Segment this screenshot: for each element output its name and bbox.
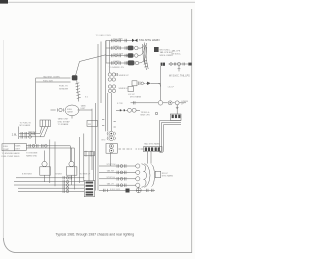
svg-text:TAIL LH: TAIL LH xyxy=(107,182,115,185)
svg-text:2.8L: 2.8L xyxy=(12,133,18,137)
svg-text:STOP LH: STOP LH xyxy=(107,177,116,179)
svg-text:TAIL MTG HARN: TAIL MTG HARN xyxy=(144,142,160,145)
svg-text:TO FRAME: TO FRAME xyxy=(58,123,69,126)
svg-text:GRD: GRD xyxy=(101,140,106,142)
svg-text:TAIL MTG HARN: TAIL MTG HARN xyxy=(139,38,160,42)
svg-text:W/ S.M.C.: W/ S.M.C. xyxy=(172,53,182,55)
svg-text:B TRK: B TRK xyxy=(117,103,124,105)
svg-text:TO S/MKR LPS: TO S/MKR LPS xyxy=(109,67,125,69)
svg-text:STOP RH: STOP RH xyxy=(107,164,116,166)
svg-text:B BRN: B BRN xyxy=(54,76,61,78)
svg-text:TO ENGINE: TO ENGINE xyxy=(26,153,38,155)
svg-text:TAIL MKR: TAIL MKR xyxy=(43,75,53,78)
svg-text:TAIL LPS: TAIL LPS xyxy=(172,50,181,53)
svg-text:UNIT: UNIT xyxy=(15,149,20,151)
svg-text:B BRN: B BRN xyxy=(114,61,121,63)
svg-text:GRD STRAP: GRD STRAP xyxy=(58,120,71,123)
svg-text:GAGE: GAGE xyxy=(67,111,73,114)
svg-text:TANK: TANK xyxy=(81,105,87,108)
svg-text:FUEL TK: FUEL TK xyxy=(59,86,68,88)
svg-text:FUEL SDR: FUEL SDR xyxy=(43,80,53,82)
svg-text:LIC LP: LIC LP xyxy=(128,94,135,96)
svg-text:MTG HARN: MTG HARN xyxy=(162,175,174,178)
svg-text:PUMP: PUMP xyxy=(3,149,9,151)
svg-text:S/MKR LP: S/MKR LP xyxy=(119,88,130,90)
svg-text:S/MKR LP: S/MKR LP xyxy=(119,75,130,77)
svg-text:TANK: TANK xyxy=(15,145,21,148)
svg-text:HARN GRD: HARN GRD xyxy=(26,154,38,157)
svg-text:W/ S.M.C. TAIL LPS: W/ S.M.C. TAIL LPS xyxy=(169,75,190,78)
svg-text:B RR MKR: B RR MKR xyxy=(22,173,32,175)
svg-text:LIC LP: LIC LP xyxy=(168,86,175,88)
svg-text:TR/SIG &: TR/SIG & xyxy=(141,112,151,114)
svg-text:SENDER: SENDER xyxy=(59,88,69,90)
svg-text:MTG HARN: MTG HARN xyxy=(130,96,142,99)
svg-text:FUEL: FUEL xyxy=(67,109,73,111)
svg-text:B LT GRN: B LT GRN xyxy=(114,38,124,40)
svg-text:TO MKR LP: TO MKR LP xyxy=(80,173,91,175)
svg-text:MTG HARN: MTG HARN xyxy=(20,124,31,127)
svg-text:TANK UNIT: TANK UNIT xyxy=(58,118,70,121)
svg-text:B MKR: B MKR xyxy=(56,173,63,175)
svg-text:FUEL: FUEL xyxy=(3,146,9,148)
svg-text:TO CAB CONN: TO CAB CONN xyxy=(96,34,112,37)
svg-text:TO ENGINE HARN: TO ENGINE HARN xyxy=(2,152,20,155)
svg-text:B BLK GRD: B BLK GRD xyxy=(110,189,121,191)
svg-text:W/O S.M.C.: W/O S.M.C. xyxy=(160,49,172,51)
svg-text:MKR LPS: MKR LPS xyxy=(141,115,151,117)
svg-text:B YEL: B YEL xyxy=(114,46,121,48)
svg-text:FUEL PUMP FEED: FUEL PUMP FEED xyxy=(2,156,20,158)
svg-text:B DK GRN: B DK GRN xyxy=(114,53,124,55)
svg-text:TAIL RH: TAIL RH xyxy=(107,170,115,173)
svg-text:Typical 1981 through 1987 chas: Typical 1981 through 1987 chassis and re… xyxy=(56,233,135,237)
svg-text:RR LP: RR LP xyxy=(162,173,169,175)
svg-text:FR: FR xyxy=(88,124,91,126)
